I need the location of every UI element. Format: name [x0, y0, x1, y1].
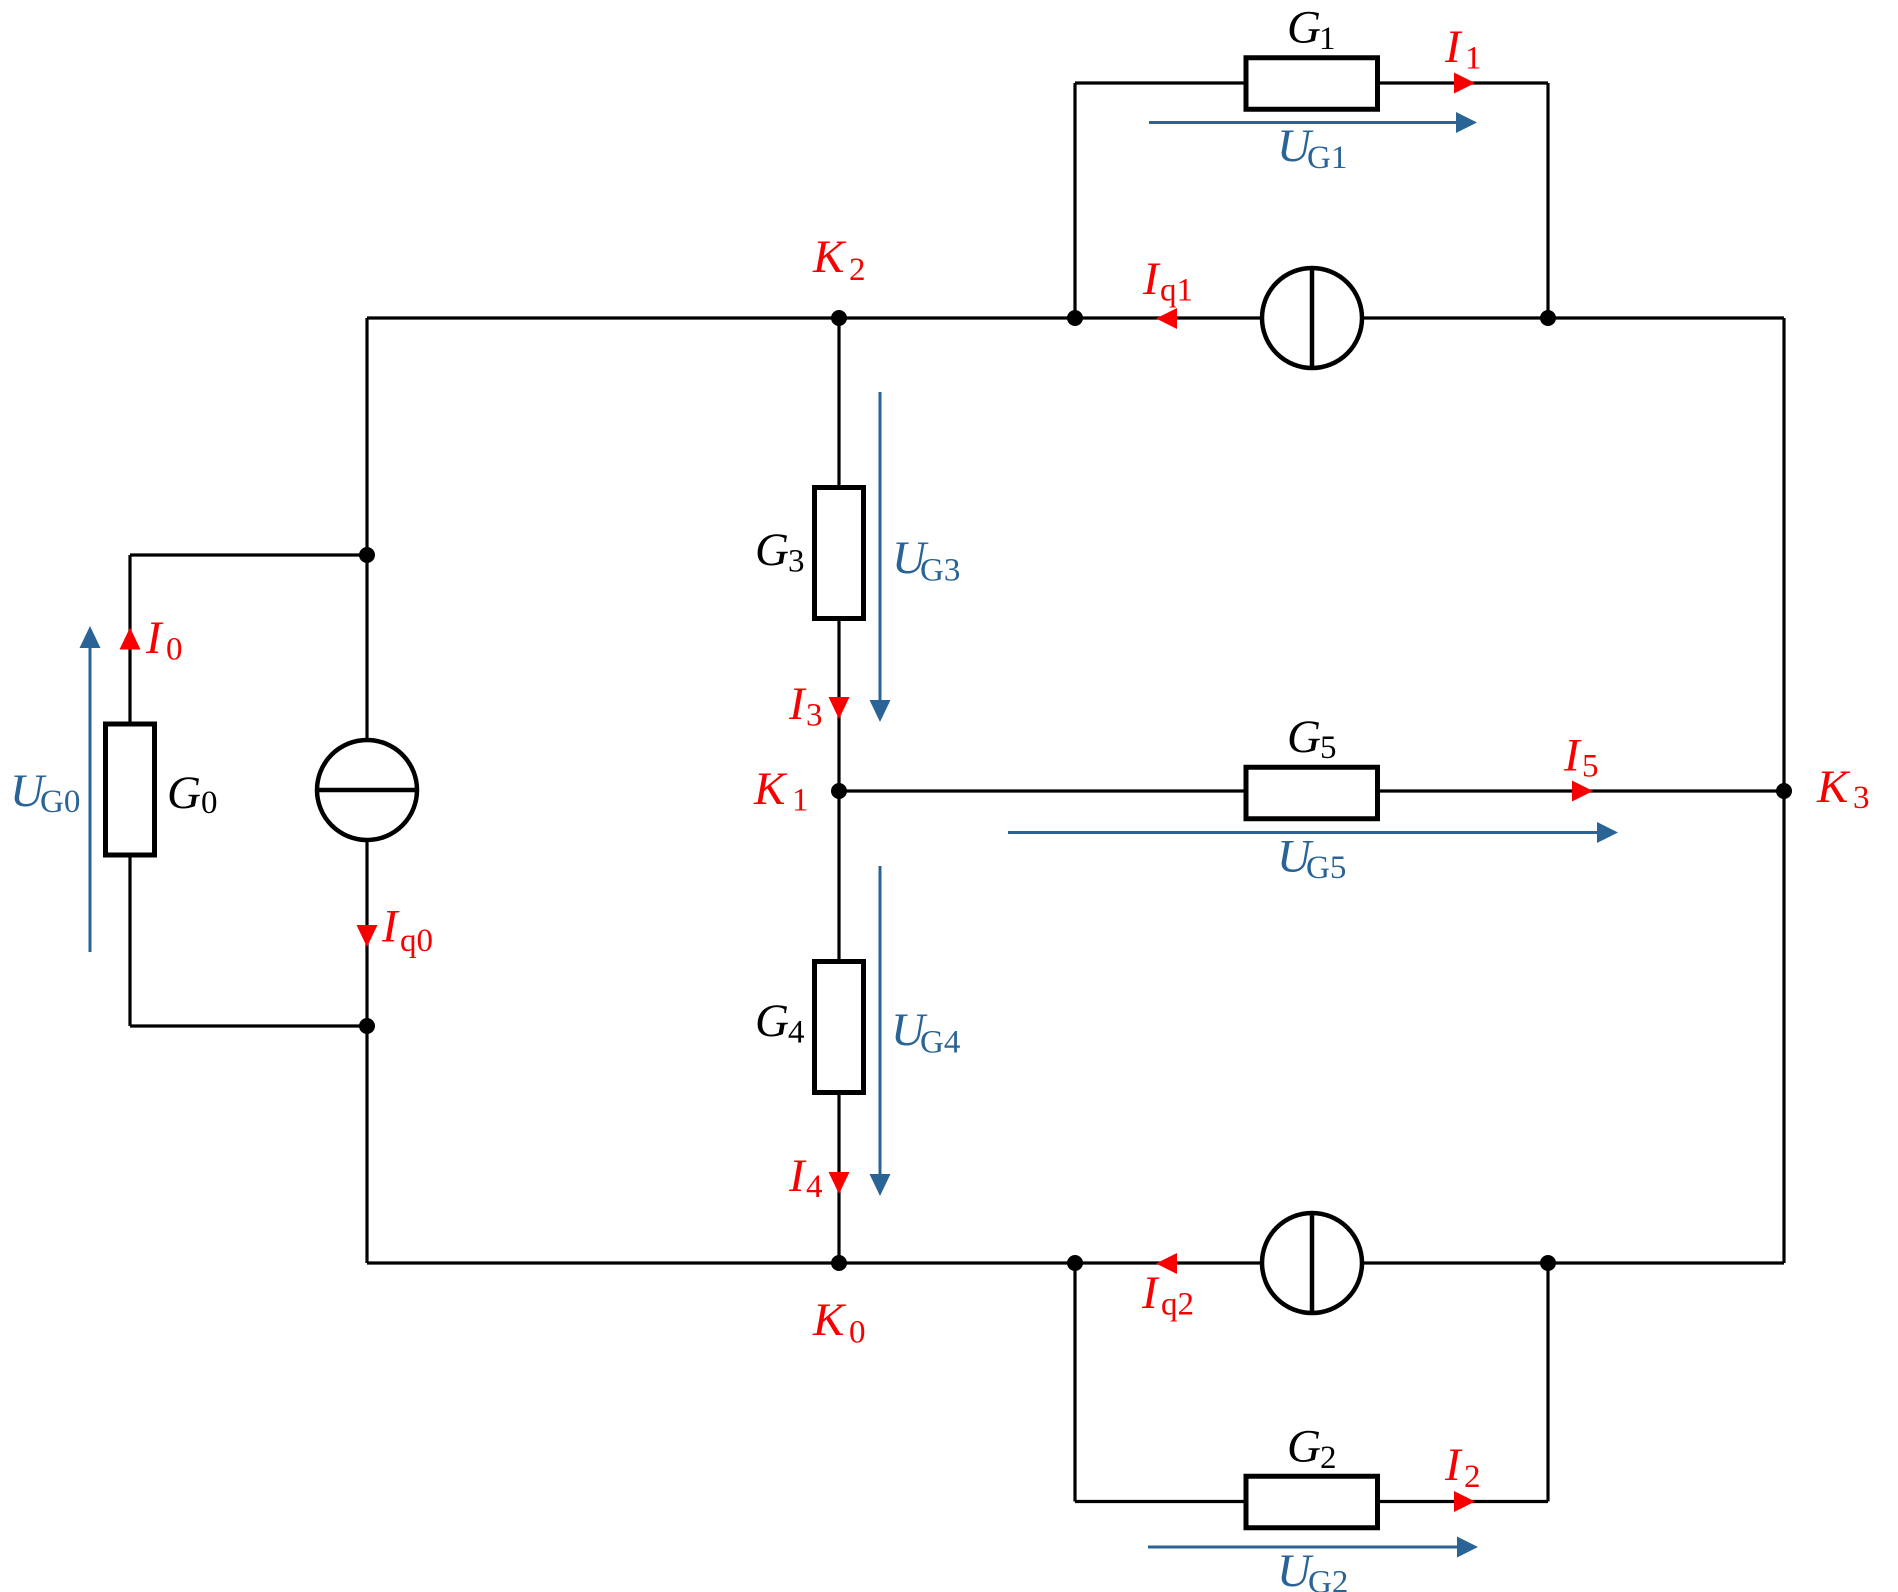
svg-text:I: I	[145, 612, 164, 664]
current arrow I5	[1572, 781, 1593, 802]
voltage arrow line UG5	[1008, 831, 1597, 834]
wire G0 loop bottom	[130, 1024, 367, 1027]
voltage arrow line UG2	[1148, 1546, 1457, 1549]
wire top outer K2 row	[367, 316, 1784, 319]
svg-text:G1: G1	[1307, 140, 1347, 176]
wire G2 loop right	[1546, 1263, 1549, 1502]
voltage arrowhead UG0	[80, 626, 101, 648]
junction dot Iq1 right	[1540, 310, 1556, 326]
node K0 dot	[831, 1255, 847, 1271]
wire bottom outer K0 row	[367, 1261, 1784, 1264]
voltage arrow line UG0	[89, 648, 92, 952]
voltage arrowhead UG1	[1456, 112, 1477, 133]
current source Iq0	[317, 740, 417, 840]
svg-text:0: 0	[201, 785, 218, 821]
svg-text:1: 1	[792, 783, 809, 819]
svg-text:1: 1	[1465, 41, 1482, 77]
resistor G4	[815, 962, 864, 1093]
svg-text:3: 3	[1853, 780, 1870, 816]
voltage arrow line UG3	[879, 392, 882, 700]
voltage arrow line UG4	[879, 866, 882, 1174]
wire G0 loop top	[130, 553, 367, 556]
svg-text:5: 5	[1582, 749, 1599, 785]
svg-text:q0: q0	[400, 923, 433, 959]
node K2 dot	[831, 310, 847, 326]
junction dot Iq2 left	[1067, 1255, 1083, 1271]
svg-text:G: G	[1287, 2, 1321, 54]
wire G0 loop left	[128, 555, 131, 1026]
current arrow I3	[829, 697, 850, 719]
svg-text:G4: G4	[920, 1025, 960, 1061]
svg-text:K: K	[1816, 761, 1851, 813]
svg-text:G: G	[755, 524, 789, 576]
svg-text:1: 1	[1319, 21, 1336, 57]
svg-text:G: G	[167, 767, 201, 819]
junction dot G0 bottom	[359, 1018, 375, 1034]
current arrow Iq2	[1156, 1253, 1177, 1274]
svg-text:G: G	[1287, 711, 1321, 763]
svg-text:I: I	[1141, 1267, 1160, 1319]
svg-text:3: 3	[788, 544, 805, 580]
svg-text:G: G	[755, 995, 789, 1047]
svg-text:I: I	[381, 901, 400, 953]
resistor G2	[1246, 1476, 1378, 1528]
junction dot G0 top	[359, 547, 375, 563]
svg-text:2: 2	[849, 252, 866, 288]
wire G1 loop top	[1075, 81, 1548, 84]
voltage arrow line UG1	[1149, 121, 1456, 124]
svg-text:3: 3	[806, 698, 823, 734]
svg-text:0: 0	[849, 1315, 866, 1351]
voltage arrowhead UG2	[1457, 1537, 1478, 1558]
svg-text:G2: G2	[1308, 1565, 1348, 1592]
node K3 dot	[1776, 783, 1792, 799]
svg-text:I: I	[788, 678, 807, 730]
wire middle row K1-K3	[839, 789, 1784, 792]
svg-text:K: K	[812, 1294, 847, 1346]
wire left outer	[365, 318, 368, 1263]
current source Iq1	[1262, 268, 1362, 368]
svg-text:q1: q1	[1160, 273, 1193, 309]
svg-text:K: K	[753, 763, 788, 815]
junction dot Iq2 right	[1540, 1255, 1556, 1271]
svg-text:I: I	[788, 1150, 807, 1202]
svg-text:4: 4	[806, 1169, 823, 1205]
wire G1 loop right	[1546, 83, 1549, 318]
resistor G1	[1246, 58, 1378, 110]
current arrow I2	[1454, 1491, 1475, 1512]
voltage arrowhead UG5	[1597, 822, 1618, 843]
svg-text:I: I	[1444, 21, 1463, 73]
voltage arrowhead UG3	[870, 700, 891, 722]
svg-text:5: 5	[1320, 730, 1337, 766]
svg-text:q2: q2	[1161, 1287, 1194, 1323]
resistor G0	[106, 724, 155, 855]
svg-text:G: G	[1287, 1421, 1321, 1473]
svg-text:2: 2	[1464, 1459, 1481, 1495]
svg-text:K: K	[812, 231, 847, 283]
svg-text:G3: G3	[920, 553, 960, 589]
svg-text:I: I	[1563, 730, 1582, 782]
svg-text:0: 0	[166, 632, 183, 668]
current arrow I0	[120, 628, 141, 650]
svg-text:I: I	[1142, 253, 1161, 305]
current arrow Iq1	[1156, 308, 1177, 329]
voltage arrowhead UG4	[870, 1174, 891, 1196]
wire G2 loop left	[1073, 1263, 1076, 1502]
svg-text:I: I	[1444, 1439, 1463, 1491]
resistor G5	[1246, 767, 1378, 819]
svg-text:G0: G0	[40, 784, 80, 820]
current arrow Iq0	[357, 925, 378, 947]
svg-text:2: 2	[1320, 1440, 1337, 1476]
svg-text:4: 4	[788, 1015, 805, 1051]
current arrow I4	[829, 1172, 850, 1194]
svg-text:G5: G5	[1306, 850, 1346, 886]
junction dot Iq1 left	[1067, 310, 1083, 326]
node K1 dot	[831, 783, 847, 799]
wire right outer	[1782, 318, 1785, 1263]
wire G1 loop left	[1073, 83, 1076, 318]
current arrow I1	[1454, 73, 1475, 94]
wire G2 loop bottom	[1075, 1500, 1548, 1503]
wire middle column K2-K1-K0	[837, 318, 840, 1263]
resistor G3	[815, 488, 864, 619]
current source Iq2	[1262, 1213, 1362, 1313]
